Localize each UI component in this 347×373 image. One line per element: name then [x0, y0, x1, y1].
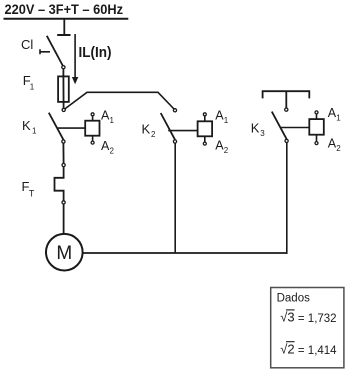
wire FT to motor: [63, 204, 65, 234]
node below fuse: [62, 108, 65, 111]
svg-text:2: 2: [151, 130, 156, 139]
svg-text:M: M: [56, 243, 72, 264]
svg-text:1: 1: [110, 116, 115, 125]
switch Cl blade: [47, 36, 63, 66]
svg-text:√3: √3: [280, 310, 294, 325]
coil K2 terminal A2: [204, 136, 206, 142]
wire K1 to FT: [62, 143, 64, 163]
thermal relay FT element: [55, 167, 64, 201]
bracket over K3: [263, 91, 310, 108]
svg-text:K: K: [22, 118, 31, 133]
svg-text:IL(In): IL(In): [79, 44, 112, 61]
coil K3 terminal A1: [316, 114, 318, 119]
contact K2 blade: [161, 113, 175, 140]
bus line: [4, 18, 129, 20]
svg-text:T: T: [29, 188, 35, 198]
coil K1 box: [85, 121, 99, 136]
link K3 blade to coil: [280, 127, 310, 129]
coil K3 terminal A2: [316, 135, 318, 142]
coil K2 terminal A1: [204, 116, 206, 121]
wire Cl to fuse: [62, 69, 64, 76]
svg-text:K: K: [142, 121, 151, 136]
current arrow IL(In): [74, 34, 76, 78]
svg-text:= 1,732: = 1,732: [298, 313, 337, 325]
svg-text:3: 3: [260, 129, 265, 138]
coil K1 terminal A2: [92, 136, 94, 141]
coil K3 box: [309, 119, 324, 135]
motor M: [46, 234, 83, 271]
svg-text:1: 1: [224, 116, 229, 125]
wire K3 down: [286, 143, 288, 254]
svg-text:Dados: Dados: [277, 292, 310, 304]
tap wire from bus: [63, 20, 65, 35]
switch Cl fixed contact: [40, 49, 50, 54]
svg-text:K: K: [251, 121, 260, 136]
contact K3 blade: [272, 112, 287, 140]
coil K1 terminal A1: [92, 116, 94, 121]
wire branch fuse to K2: [65, 92, 174, 109]
contact K3 lower terminal: [285, 139, 288, 142]
thermal relay FT bottom terminal: [62, 201, 65, 204]
svg-text:Cl: Cl: [21, 37, 33, 52]
coil K2 box: [198, 121, 213, 136]
wire motor to K2/K3: [83, 252, 287, 254]
link K1 blade to coil: [57, 127, 86, 129]
svg-text:1: 1: [32, 127, 37, 136]
svg-text:1: 1: [336, 114, 341, 123]
svg-text:= 1,414: = 1,414: [298, 345, 337, 357]
data box: [271, 288, 344, 368]
contact K1 blade: [49, 113, 64, 140]
svg-text:1: 1: [30, 82, 35, 91]
svg-text:2: 2: [110, 147, 115, 156]
thermal relay FT top terminal: [62, 163, 65, 166]
tap terminal bar: [57, 34, 70, 36]
svg-text:2: 2: [224, 146, 229, 155]
switch Cl moving terminal: [62, 66, 65, 69]
contact K2 top terminal: [173, 109, 176, 112]
contact K1 lower terminal: [62, 140, 65, 143]
fuse F1: [58, 76, 69, 102]
contact K2 lower terminal: [173, 140, 176, 143]
link K2 blade to coil: [168, 130, 197, 132]
svg-text:2: 2: [336, 144, 341, 153]
wire K2 down: [174, 143, 176, 253]
contact K3 top terminal: [285, 108, 288, 111]
svg-text:220V – 3F+T – 60Hz: 220V – 3F+T – 60Hz: [5, 1, 124, 17]
svg-text:√2: √2: [280, 341, 294, 356]
